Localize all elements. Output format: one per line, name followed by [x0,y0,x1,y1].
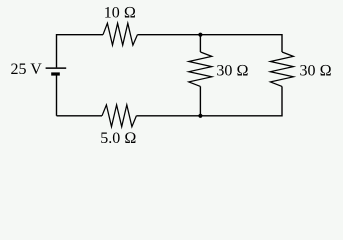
svg-text:5.0 Ω: 5.0 Ω [100,130,136,147]
node C junction dot (bottom of middle branch) [198,114,202,118]
resistor 30 ohm (middle vertical) [189,52,212,86]
node B junction dot (top of middle branch) [198,33,202,37]
svg-text:30 Ω: 30 Ω [216,62,248,79]
wire: top side right segment (R 10ohm to node B) [137,34,282,36]
wire: bottom side left segment (to R 5.0ohm) [57,115,103,117]
svg-text:10 Ω: 10 Ω [104,5,136,22]
wire: top side left segment (node A to R 10ohm) [57,34,104,36]
svg-text:30 Ω: 30 Ω [300,63,332,80]
wire: left side upper (top wire down to battery + plate) [56,34,58,67]
resistor 5.0 ohm (bottom horizontal) [102,105,136,127]
wire: left side lower (battery - plate down to bottom wire) [56,76,58,116]
resistor 10 ohm (top horizontal) [103,23,137,45]
wire: middle branch upper lead [199,35,201,52]
wire: right side upper lead [281,34,283,52]
resistor 30 ohm (right vertical) [270,52,293,86]
wire: right side lower lead [281,86,283,116]
battery 25 V : positive plate (long thin line) [46,67,67,69]
battery 25 V : negative plate (short thick bar) [51,72,60,75]
svg-text:25 V: 25 V [11,61,43,78]
wire: bottom side right segment (R 5.0ohm to node C) [136,115,282,117]
wire: middle branch lower lead [199,86,201,115]
